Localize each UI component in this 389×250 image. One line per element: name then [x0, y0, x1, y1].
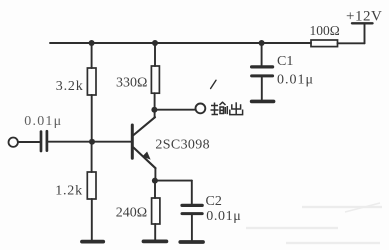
svg-text:0.01μ: 0.01μ [277, 72, 314, 87]
resistor R5 240Ω body [152, 198, 160, 224]
transistor Q1 emitter arrowhead [142, 152, 150, 160]
svg-text:+12V: +12V [346, 8, 382, 24]
wire input terminal to coupling capacitor [18, 141, 39, 143]
node D junction dot (base node) [89, 139, 95, 145]
transistor Q1 base bar [131, 125, 134, 158]
node A junction dot (3.2k tap) [89, 40, 95, 46]
capacitor Cin right plate [46, 131, 49, 150]
wire collector node to output terminal [154, 109, 194, 111]
wire top rail left segment [50, 42, 262, 44]
svg-text:0.01μ: 0.01μ [24, 114, 62, 129]
wire 100ohm resistor to supply riser [338, 42, 365, 44]
capacitor C1 bottom plate [252, 74, 273, 77]
capacitor Cin left plate [40, 132, 43, 151]
capacitor C2 bottom plate [182, 212, 202, 215]
node C junction dot (C1 tap) [259, 40, 265, 46]
wire C2 to ground [191, 215, 193, 240]
wire 3.2k to base node [91, 95, 93, 142]
svg-text:0.01μ: 0.01μ [206, 209, 241, 224]
wire C2 branch riser [191, 181, 193, 204]
resistor R2 330Ω body [151, 66, 159, 93]
ground bar under C1 [252, 100, 274, 104]
wire 330 ohm to collector node [154, 93, 156, 110]
svg-text:C1: C1 [277, 54, 293, 69]
transistor Q1 emitter stroke [134, 148, 156, 169]
svg-text:100Ω: 100Ω [310, 23, 340, 38]
glyph 出 [230, 102, 243, 114]
wire rail to C1 [261, 43, 263, 65]
resistor R3 1.2k body [87, 172, 96, 199]
svg-text:C2: C2 [206, 194, 222, 209]
wire emitter node to C2 branch [155, 180, 192, 182]
capacitor C2 top plate [182, 204, 202, 207]
svg-text:240Ω: 240Ω [116, 205, 147, 220]
pointer mark above output [211, 80, 216, 88]
wire +12V riser [364, 24, 366, 43]
faint watermark remnants bottom right [246, 203, 382, 243]
svg-text:3.2k: 3.2k [56, 79, 84, 94]
transistor Q1 collector stroke [134, 117, 155, 135]
power +12V terminal bar [352, 22, 373, 24]
glyph 输 [211, 102, 228, 114]
svg-text:330Ω: 330Ω [116, 76, 147, 91]
ground bar under 1.2k [82, 240, 103, 244]
input terminal circle [9, 138, 18, 147]
node B junction dot (330 ohm tap) [152, 40, 158, 46]
node E junction dot (collector node) [151, 107, 157, 113]
wire collector to collector node [154, 110, 156, 118]
node F junction dot (emitter node) [152, 178, 158, 184]
label 输出 (output) drawn glyphs [211, 102, 243, 114]
wire emitter node to 240 ohm resistor [154, 181, 156, 198]
ground bar under C2 [180, 240, 203, 244]
resistor R4 100Ω body [311, 40, 338, 47]
output terminal circle [196, 104, 206, 114]
wire rail to 330 ohm resistor [154, 43, 156, 66]
wire coupling capacitor to base [49, 141, 131, 143]
resistor R1 3.2k body [87, 68, 96, 95]
wire base node to 1.2k resistor [91, 142, 93, 172]
wire C1 to ground [261, 78, 263, 100]
capacitor C1 top plate [252, 65, 273, 68]
wire 240 ohm to ground [154, 224, 156, 240]
ground bar under 240 ohm [144, 239, 167, 243]
wire emitter to emitter node [154, 168, 156, 181]
wire top rail middle segment to 100ohm resistor [262, 42, 311, 44]
wire 1.2k to ground [91, 199, 93, 241]
wire rail to 3.2k resistor [91, 43, 93, 68]
svg-text:2SC3098: 2SC3098 [155, 137, 210, 152]
svg-text:1.2k: 1.2k [55, 183, 83, 198]
